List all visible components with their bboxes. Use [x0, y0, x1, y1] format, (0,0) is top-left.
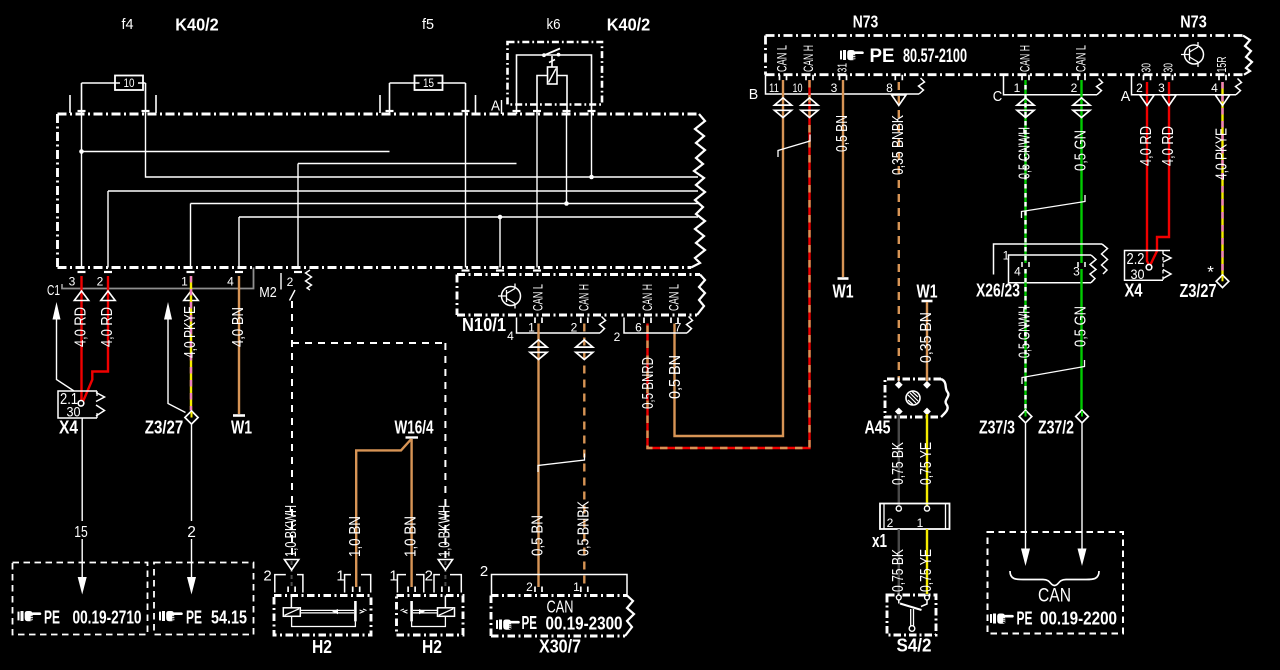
svg-text:A: A — [1121, 88, 1131, 105]
svg-text:W1: W1 — [917, 282, 938, 302]
svg-text:0,35 BNBK: 0,35 BNBK — [890, 114, 907, 175]
svg-text:N73: N73 — [853, 12, 879, 32]
svg-text:CAN L: CAN L — [667, 284, 682, 311]
svg-text:1: 1 — [181, 275, 188, 289]
svg-text:2: 2 — [287, 275, 294, 289]
svg-text:3: 3 — [1073, 265, 1080, 279]
svg-text:Z3/27: Z3/27 — [1180, 281, 1217, 301]
svg-text:0,5 GNWH: 0,5 GNWH — [1017, 127, 1034, 179]
svg-text:1: 1 — [917, 516, 924, 530]
svg-text:A: A — [491, 99, 500, 115]
svg-text:*: * — [1207, 263, 1214, 282]
svg-text:3: 3 — [1158, 81, 1165, 95]
svg-text:Z3/27: Z3/27 — [145, 418, 184, 438]
svg-text:CAN: CAN — [1038, 586, 1071, 607]
svg-text:CAN L: CAN L — [531, 284, 546, 311]
svg-text:11: 11 — [769, 81, 779, 95]
svg-text:Z37/3: Z37/3 — [979, 418, 1015, 438]
svg-text:6: 6 — [635, 321, 642, 335]
svg-text:0,5 GNWH: 0,5 GNWH — [1017, 306, 1034, 358]
svg-text:A45: A45 — [865, 418, 891, 438]
svg-text:0,75 YE: 0,75 YE — [918, 549, 935, 592]
svg-text:00.19-2200: 00.19-2200 — [1040, 608, 1117, 629]
svg-text:4,0 PKYE: 4,0 PKYE — [182, 306, 199, 358]
svg-text:Z37/2: Z37/2 — [1038, 418, 1074, 438]
svg-text:N73: N73 — [1180, 12, 1207, 32]
svg-text:M2: M2 — [259, 285, 277, 301]
svg-text:10: 10 — [793, 81, 803, 95]
svg-text:8: 8 — [886, 81, 893, 95]
svg-text:15R: 15R — [1214, 57, 1229, 73]
svg-text:4,0 RD: 4,0 RD — [99, 307, 116, 347]
svg-text:4,0 BN: 4,0 BN — [230, 307, 247, 347]
svg-text:0,5 BNBK: 0,5 BNBK — [576, 500, 593, 556]
svg-text:31: 31 — [835, 63, 850, 73]
svg-text:3: 3 — [831, 81, 838, 95]
svg-text:0,5 BNRD: 0,5 BNRD — [640, 357, 657, 409]
svg-text:PE: PE — [522, 612, 538, 633]
svg-text:1,0 BKWH: 1,0 BKWH — [283, 505, 300, 557]
svg-text:f5: f5 — [422, 16, 434, 33]
svg-text:4,0 RD: 4,0 RD — [1138, 126, 1155, 166]
svg-text:0,5 BN: 0,5 BN — [834, 115, 851, 152]
svg-text:C1: C1 — [47, 283, 60, 299]
svg-text:0,5 GN: 0,5 GN — [1073, 130, 1090, 171]
svg-text:0,5 BN: 0,5 BN — [530, 515, 547, 556]
svg-text:0,75 BK: 0,75 BK — [890, 548, 907, 592]
svg-text:PE: PE — [186, 607, 202, 628]
svg-text:4: 4 — [227, 275, 234, 289]
svg-text:W16/4: W16/4 — [395, 418, 434, 438]
svg-text:1,0 BN: 1,0 BN — [347, 516, 364, 557]
svg-text:k6: k6 — [547, 16, 561, 33]
svg-text:4,0 RD: 4,0 RD — [1160, 126, 1177, 166]
svg-text:X26/23: X26/23 — [976, 281, 1020, 301]
svg-text:CAN H: CAN H — [801, 45, 816, 72]
svg-text:2: 2 — [97, 275, 104, 289]
svg-text:CAN H: CAN H — [577, 284, 592, 311]
svg-text:1: 1 — [573, 580, 580, 594]
svg-text:C: C — [993, 88, 1003, 105]
svg-text:2: 2 — [571, 321, 578, 335]
svg-text:0,5 GN: 0,5 GN — [1073, 306, 1090, 347]
svg-text:2: 2 — [887, 516, 894, 530]
svg-text:X4: X4 — [59, 418, 78, 438]
svg-text:2: 2 — [425, 568, 433, 585]
svg-text:1: 1 — [336, 568, 344, 585]
svg-text:N10/1: N10/1 — [462, 315, 506, 335]
svg-text:1: 1 — [528, 321, 535, 335]
svg-text:x1: x1 — [872, 531, 887, 551]
svg-text:30: 30 — [1161, 63, 1176, 73]
svg-text:54.15: 54.15 — [211, 607, 247, 628]
svg-text:15: 15 — [423, 76, 434, 90]
svg-text:00.19-2300: 00.19-2300 — [546, 613, 623, 634]
svg-text:CAN H: CAN H — [1018, 45, 1033, 72]
svg-text:f4: f4 — [122, 16, 134, 33]
svg-text:30: 30 — [1139, 63, 1154, 73]
svg-text:H2: H2 — [422, 637, 442, 657]
svg-text:0,75 BK: 0,75 BK — [890, 441, 907, 485]
svg-text:2: 2 — [526, 580, 533, 594]
svg-text:1,0 BKWH: 1,0 BKWH — [437, 505, 454, 557]
svg-text:0,5 BN: 0,5 BN — [667, 355, 684, 399]
svg-text:4,0 PKYE: 4,0 PKYE — [1214, 128, 1231, 180]
svg-text:1: 1 — [1014, 81, 1021, 95]
svg-text:1,0 BN: 1,0 BN — [403, 516, 420, 557]
svg-text:2: 2 — [614, 330, 621, 344]
svg-text:1: 1 — [389, 568, 397, 585]
svg-text:H2: H2 — [312, 637, 332, 657]
svg-text:K40/2: K40/2 — [175, 15, 219, 35]
svg-text:80.57-2100: 80.57-2100 — [903, 46, 967, 67]
svg-text:W1: W1 — [231, 418, 252, 438]
svg-text:3: 3 — [69, 275, 76, 289]
svg-text:K40/2: K40/2 — [607, 15, 651, 35]
svg-text:CAN H: CAN H — [640, 284, 655, 311]
svg-text:CAN L: CAN L — [1074, 45, 1089, 72]
svg-text:00.19-2710: 00.19-2710 — [73, 607, 142, 628]
svg-text:2: 2 — [187, 524, 196, 541]
svg-text:2: 2 — [1071, 81, 1078, 95]
svg-text:4: 4 — [1014, 265, 1021, 279]
svg-text:0,75 YE: 0,75 YE — [918, 442, 935, 485]
svg-text:0,35 BN: 0,35 BN — [918, 312, 935, 363]
svg-text:2: 2 — [480, 563, 488, 580]
svg-text:PE: PE — [870, 46, 895, 67]
svg-text:15: 15 — [74, 524, 88, 541]
svg-text:X4: X4 — [1125, 281, 1143, 301]
svg-text:4: 4 — [507, 329, 514, 343]
svg-text:B: B — [749, 86, 759, 103]
svg-text:CAN L: CAN L — [775, 45, 790, 72]
svg-text:W1: W1 — [833, 282, 854, 302]
svg-text:2: 2 — [1136, 81, 1143, 95]
svg-text:2: 2 — [263, 568, 271, 585]
svg-text:PE: PE — [1017, 608, 1033, 629]
svg-text:4: 4 — [1211, 81, 1218, 95]
svg-text:10: 10 — [124, 76, 135, 90]
svg-text:4,0 RD: 4,0 RD — [73, 307, 90, 347]
svg-text:X30/7: X30/7 — [539, 637, 581, 657]
svg-text:PE: PE — [44, 607, 60, 628]
svg-text:S4/2: S4/2 — [897, 636, 932, 656]
